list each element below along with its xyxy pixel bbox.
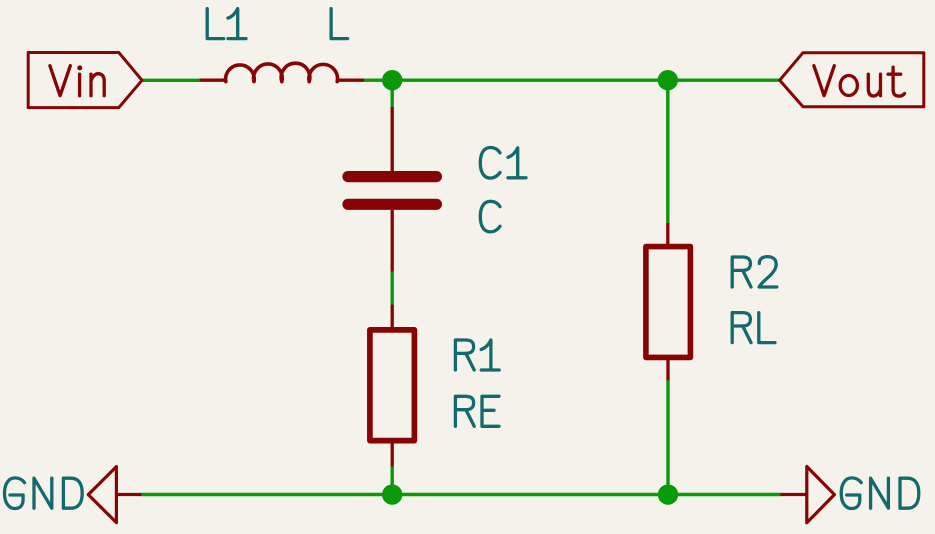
power symbol GND right: triangle	[807, 467, 835, 523]
reference R1 text "1"	[481, 340, 499, 370]
reference C1 text "1"	[508, 148, 526, 178]
resistor R1 body	[370, 330, 415, 441]
resistor R2 pin 2 lead	[666, 357, 669, 380]
hierarchical label Vout text "V"	[814, 66, 834, 96]
junction bottom-right node	[658, 484, 678, 504]
reference R1 text "R"	[455, 340, 474, 370]
resistor R1 pin 2 lead	[391, 441, 394, 467]
capacitor C1 bottom plate	[348, 199, 436, 210]
wire Vin to L1 pin1	[142, 79, 199, 82]
value RL text "R"	[732, 313, 751, 343]
wire L1 pin2 to Vout (top net)	[364, 78, 780, 81]
capacitor C1 pin 1 lead	[391, 107, 394, 171]
junction top-right node	[658, 70, 678, 90]
power symbol GND left: pin lead	[116, 493, 141, 496]
power symbol GND left text "N"	[34, 478, 52, 508]
value RE text "E"	[482, 396, 499, 426]
wire R2 pin2 to bottom-right junction	[666, 380, 669, 495]
value RL text "L"	[759, 313, 775, 343]
hierarchical label Vout text "o"	[840, 76, 857, 96]
hierarchical label Vout text "t"	[888, 67, 904, 96]
inductor L1 pin 1 lead	[199, 79, 226, 82]
power symbol GND left: triangle	[88, 467, 116, 523]
reference L1 text "L"	[207, 9, 224, 39]
power symbol GND right text "G"	[841, 478, 861, 509]
resistor R1 pin 1 lead	[391, 305, 394, 330]
reference L1 text "1"	[228, 9, 246, 39]
power symbol GND left text "G"	[5, 478, 25, 509]
resistor R2 body	[646, 247, 691, 358]
power symbol GND left text "D"	[63, 478, 82, 508]
wire top junction to C1 pin1	[391, 80, 394, 107]
wire C1 pin2 to R1 pin1	[391, 272, 394, 305]
wire R1 pin2 to bottom junction	[391, 466, 394, 494]
value C text	[480, 201, 500, 232]
junction bottom-left node	[382, 484, 402, 504]
inductor L1 body (4 arcs)	[226, 63, 338, 81]
value L text	[331, 9, 348, 39]
hierarchical label Vin text "V"	[50, 66, 70, 96]
hierarchical label Vin outline	[28, 53, 142, 108]
resistor R2 pin 1 lead	[666, 223, 669, 247]
hierarchical label Vin text "i" stem	[78, 74, 81, 96]
wire bottom GND net	[142, 493, 781, 496]
reference C1 text "C"	[480, 148, 500, 179]
capacitor C1 pin 2 lead	[391, 210, 394, 272]
capacitor C1 top plate	[348, 171, 436, 182]
hierarchical label Vout text "u"	[868, 74, 880, 96]
hierarchical label Vout outline	[780, 53, 924, 107]
wire top-right junction to R2 pin1	[666, 80, 669, 223]
junction top-left node	[382, 70, 402, 90]
power symbol GND right text "D"	[900, 478, 919, 508]
value RE text "R"	[455, 396, 474, 426]
power symbol GND right: pin lead	[780, 493, 806, 496]
hierarchical label Vin text "i" dot	[77, 65, 82, 70]
reference R2 text "R"	[732, 257, 751, 287]
hierarchical label Vin text "n"	[91, 74, 104, 96]
power symbol GND right text "N"	[871, 478, 889, 508]
inductor L1 pin 2 lead	[337, 79, 364, 82]
reference R2 text "2"	[759, 257, 777, 287]
